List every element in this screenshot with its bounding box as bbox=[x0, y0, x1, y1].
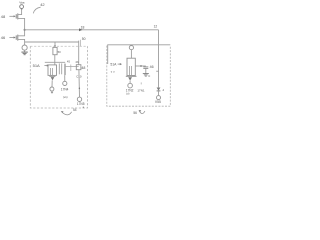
svg-text:48: 48 bbox=[81, 66, 85, 70]
svg-text:(v): (v) bbox=[126, 92, 129, 96]
svg-text:54: 54 bbox=[73, 108, 77, 112]
svg-text:50: 50 bbox=[58, 50, 62, 54]
svg-text:48: 48 bbox=[1, 14, 6, 19]
svg-text:a: a bbox=[79, 86, 81, 90]
svg-text:51A: 51A bbox=[33, 63, 40, 68]
svg-text:d: d bbox=[163, 88, 165, 92]
svg-text:u u: u u bbox=[111, 70, 115, 73]
svg-text:(vs): (vs) bbox=[63, 95, 68, 99]
svg-text:V55: V55 bbox=[155, 100, 161, 104]
svg-text:Vaa: Vaa bbox=[19, 1, 25, 5]
svg-text:46: 46 bbox=[150, 65, 154, 69]
svg-text:51A: 51A bbox=[110, 63, 117, 67]
svg-text:4b: 4b bbox=[75, 60, 79, 64]
svg-text:a: a bbox=[83, 106, 85, 109]
svg-text:12: 12 bbox=[154, 24, 158, 28]
svg-text:56: 56 bbox=[133, 111, 137, 115]
svg-text:17N1: 17N1 bbox=[137, 88, 145, 92]
svg-text:42: 42 bbox=[40, 2, 45, 7]
svg-text:18: 18 bbox=[81, 26, 85, 30]
svg-text:C: C bbox=[148, 74, 150, 78]
svg-text:50: 50 bbox=[82, 37, 86, 41]
svg-text:45: 45 bbox=[67, 59, 71, 63]
svg-text:17N4: 17N4 bbox=[61, 88, 69, 92]
svg-text:46: 46 bbox=[1, 35, 6, 40]
